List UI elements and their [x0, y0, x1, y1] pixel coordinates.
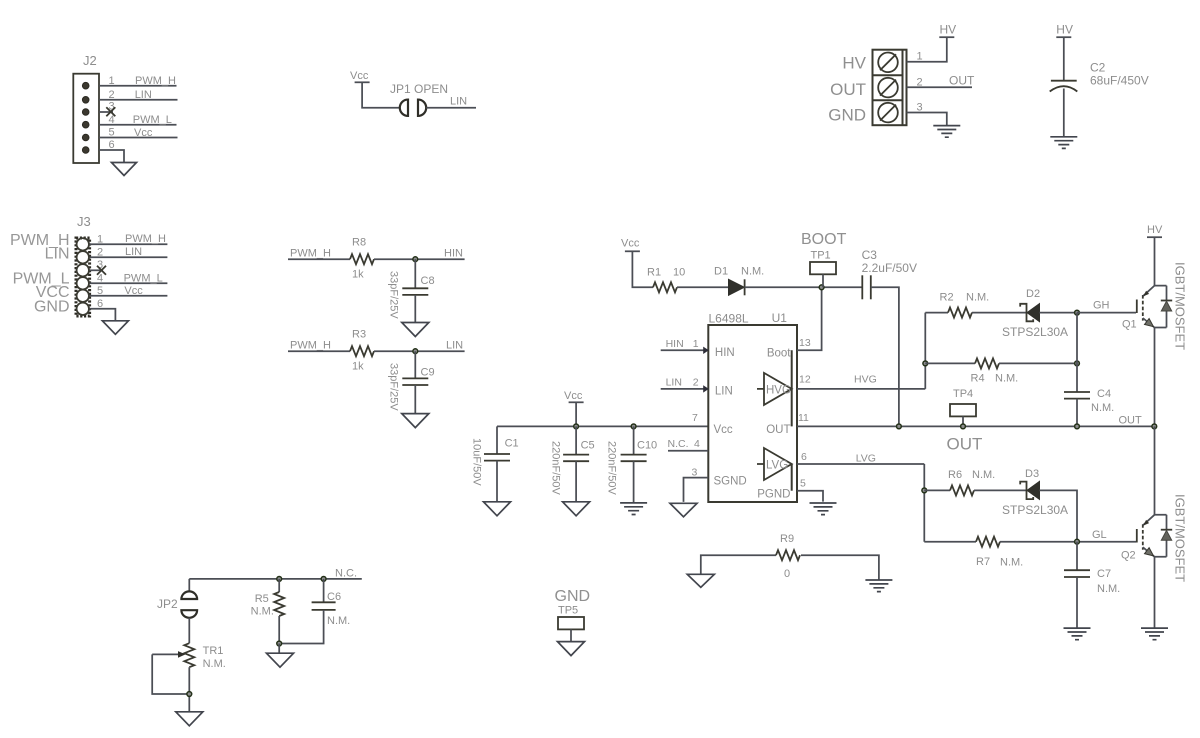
svg-text:JP2: JP2: [157, 597, 178, 611]
svg-text:1: 1: [97, 233, 103, 245]
wire rail to C6: [323, 579, 325, 602]
resistor R5: [274, 592, 284, 616]
capacitor C2 (polarized): [1051, 80, 1077, 82]
wire R4 to GH vertical: [999, 362, 1077, 364]
terminal cell divider 1: [873, 74, 903, 76]
svg-text:1: 1: [109, 75, 115, 87]
J3 pin contact 1: [77, 238, 89, 250]
wire R5 bottom: [278, 616, 280, 644]
pin 1 input arrow: [703, 347, 709, 354]
wire LIN net to pin 2: [661, 388, 709, 390]
junction R5/C6: [277, 641, 282, 646]
svg-text:PWM_H: PWM_H: [125, 233, 166, 245]
jumper JP2 lower half: [181, 610, 197, 618]
svg-text:LIN: LIN: [446, 340, 463, 352]
svg-text:R1: R1: [647, 267, 661, 279]
ground (C8): [402, 323, 429, 337]
wire terminal pin 1 to HV: [907, 37, 947, 62]
wire top rail to N.C.: [189, 578, 361, 580]
svg-text:TP4: TP4: [953, 388, 973, 400]
wire J2 pin 2 LIN: [99, 99, 178, 101]
U1 LVG driver triangle: [757, 448, 792, 480]
junction boot node: [819, 285, 824, 290]
diode D1: [729, 279, 745, 295]
test point TP5: [558, 617, 584, 629]
test point TP5 GND: [555, 588, 591, 656]
svg-text:6: 6: [109, 139, 115, 151]
J3 pin contact 4: [77, 277, 89, 289]
svg-text:LIN: LIN: [125, 246, 142, 258]
Q2 channel bar (dashed): [1142, 524, 1144, 550]
wire GH to Q1 gate: [1077, 312, 1136, 314]
ground (SGND): [670, 503, 697, 517]
svg-text:3: 3: [692, 467, 698, 479]
jumper JP1 circuit: [350, 70, 476, 116]
wire R8 to HIN: [374, 258, 465, 260]
wire rail to JP2: [188, 579, 190, 592]
resistor R7: [976, 537, 1000, 547]
svg-text:Q1: Q1: [1122, 319, 1137, 331]
wire GL node to C7: [1076, 542, 1078, 571]
svg-text:R5: R5: [255, 593, 269, 605]
svg-text:C4: C4: [1097, 388, 1111, 400]
earth ground (R9 right): [865, 580, 892, 592]
svg-text:N.M.: N.M.: [1000, 557, 1023, 569]
svg-text:6: 6: [801, 451, 807, 463]
wire TP1 to boot node: [822, 274, 824, 287]
wire node to ground: [278, 644, 280, 654]
svg-text:LIN: LIN: [715, 386, 733, 398]
junction Q1 emitter / OUT: [1152, 424, 1157, 429]
wire C8 to ground: [414, 295, 416, 323]
svg-text:GL: GL: [1092, 529, 1107, 541]
svg-text:D1: D1: [714, 266, 728, 278]
wire J2 pin 4 PWM_L: [99, 124, 177, 126]
svg-text:5: 5: [109, 127, 115, 139]
svg-text:Vcc: Vcc: [714, 424, 733, 436]
terminal screw 3: [878, 103, 898, 123]
svg-text:C3: C3: [862, 248, 878, 262]
resistor R8: [350, 254, 374, 264]
J3 pin contact 2: [77, 251, 89, 263]
wire Q2 emitter to ground: [1154, 557, 1156, 628]
svg-text:2: 2: [109, 89, 115, 101]
junction rail / C10: [631, 424, 636, 429]
svg-text:HV: HV: [940, 23, 957, 37]
resistor R6: [950, 485, 974, 495]
svg-text:1k: 1k: [352, 361, 364, 373]
wire node to C8: [414, 259, 416, 288]
svg-text:LVG: LVG: [766, 460, 788, 472]
svg-text:L6498L: L6498L: [709, 312, 749, 326]
svg-text:68uF/450V: 68uF/450V: [1090, 74, 1149, 88]
wire SGND pin 3 to ground: [684, 478, 709, 502]
svg-text:N.M.: N.M.: [251, 606, 274, 618]
svg-text:4: 4: [97, 272, 103, 284]
svg-text:PWM_L: PWM_L: [124, 272, 163, 284]
svg-text:N.M.: N.M.: [741, 266, 764, 278]
Q1 channel bar (dashed): [1142, 295, 1144, 321]
high-side gate network: [923, 288, 1142, 454]
wire JP2 to TR1: [188, 618, 190, 643]
svg-text:PGND: PGND: [757, 489, 790, 501]
wire R4 row: [925, 362, 975, 364]
wire HVG pin 12: [797, 388, 925, 390]
svg-text:HIN: HIN: [444, 248, 463, 260]
Q2 collector leg: [1143, 515, 1167, 526]
ground (TR1): [176, 712, 203, 726]
U1 pin 4 N.C. stub: [668, 450, 708, 452]
svg-text:HVG: HVG: [854, 374, 877, 386]
J2 pin contact 2: [82, 97, 89, 104]
wire Vcc to R1: [632, 251, 653, 287]
svg-text:220nF/50V: 220nF/50V: [606, 441, 618, 495]
wire J2 pin 3 stub: [99, 111, 113, 113]
wire C2 to ground: [1063, 89, 1065, 137]
wire C1 to ground: [496, 461, 498, 502]
svg-text:C5: C5: [581, 440, 595, 452]
R8 / C8 input filter: [288, 237, 465, 337]
svg-text:STPS2L30A: STPS2L30A: [1002, 325, 1068, 339]
bootstrap supply branch: [621, 231, 917, 429]
svg-text:HV: HV: [842, 54, 866, 73]
wire J3 pin 5 Vcc: [90, 295, 168, 297]
svg-text:N.M.: N.M.: [1097, 583, 1120, 595]
wire signal ground to R9: [701, 555, 776, 574]
transistor Q2 IGBT/MOSFET low side: [1121, 426, 1188, 639]
J3 pin contact 3: [77, 264, 89, 276]
junction GL/C7: [1075, 539, 1080, 544]
resistor R4: [975, 358, 999, 368]
ground (TP5): [558, 642, 585, 656]
Q2 body diode branch: [1166, 515, 1168, 557]
ground (C5): [563, 502, 590, 516]
svg-text:TP1: TP1: [811, 250, 831, 262]
connector J2: [73, 53, 177, 176]
wire Boot pin 13 to boot node: [797, 287, 822, 350]
wire J3 pin 6 to ground: [90, 309, 116, 321]
Q2 emitter arrow: [1145, 548, 1154, 556]
svg-text:GND: GND: [828, 106, 866, 125]
svg-text:1: 1: [917, 51, 923, 63]
wire C7 to ground: [1076, 577, 1078, 628]
svg-text:R4: R4: [971, 373, 985, 385]
resistor R9 ground tie: [687, 533, 892, 592]
svg-text:33pF/25V: 33pF/25V: [388, 271, 400, 319]
wire J2 pin 6 to ground: [99, 150, 124, 163]
svg-text:R9: R9: [780, 533, 794, 545]
JP2 / TR1 / R5 / C6 network: [152, 568, 362, 726]
svg-text:J3: J3: [77, 214, 91, 229]
connector J3: [10, 214, 167, 334]
earth ground (Q2 emitter): [1141, 628, 1168, 640]
Q1 body diode branch: [1166, 286, 1168, 328]
svg-text:12: 12: [799, 374, 811, 386]
earth ground (terminal pin 3): [933, 126, 960, 138]
wire OUT to Q2 collector: [1154, 426, 1156, 514]
no-connect X on J3 pin 3: [97, 266, 106, 275]
wire rail to C5: [575, 426, 577, 454]
svg-text:C8: C8: [421, 275, 435, 287]
junction C3/OUT: [897, 424, 902, 429]
J3 pin contact 6: [77, 303, 89, 315]
terminal cell divider 2: [873, 99, 903, 101]
svg-text:2: 2: [693, 377, 699, 389]
svg-text:IGBT/MOSFET: IGBT/MOSFET: [1173, 494, 1188, 582]
wire C4 to OUT: [1076, 399, 1078, 427]
svg-text:LIN: LIN: [450, 96, 467, 108]
Q1 body diode: [1161, 300, 1172, 302]
wire D1 to C3: [745, 286, 862, 288]
TR1 wiper arrow: [152, 653, 178, 655]
terminal screw 2: [878, 78, 898, 98]
U1 body: [708, 325, 797, 502]
svg-text:1: 1: [693, 338, 699, 350]
wire PWM_H to R3: [288, 350, 350, 352]
U1 HVG driver triangle: [757, 373, 792, 405]
wire to R6: [924, 489, 950, 491]
capacitor C4: [1064, 391, 1090, 393]
wire HV to C2: [1063, 37, 1065, 80]
J2 pin contact 6: [82, 147, 89, 154]
wire R1 to D1: [677, 286, 729, 288]
junction rail / C5: [574, 424, 579, 429]
svg-text:J2: J2: [83, 53, 97, 68]
svg-text:C1: C1: [505, 438, 519, 450]
wire OUT pin 11: [797, 425, 1154, 427]
Q2 emitter leg: [1143, 547, 1167, 557]
junction GH/D2: [1075, 310, 1080, 315]
svg-text:5: 5: [97, 285, 103, 297]
J2 pin contact 4: [82, 121, 89, 128]
svg-text:7: 7: [692, 412, 698, 424]
capacitor C10: [621, 454, 647, 456]
junction C6 top: [321, 577, 326, 582]
wire J2 pin 1 PWM_H: [99, 85, 177, 87]
ground (J2 pin 6): [112, 163, 137, 176]
svg-text:HVG: HVG: [766, 385, 791, 397]
svg-text:4: 4: [109, 114, 115, 126]
svg-text:GND: GND: [34, 299, 70, 316]
svg-text:N.M.: N.M.: [1091, 402, 1114, 414]
screw terminal block: [828, 23, 975, 138]
wire J3 pin 1 PWM_H: [90, 243, 168, 245]
wire terminal pin 3 to ground: [907, 113, 947, 126]
wire J3 pin 2 LIN: [90, 256, 168, 258]
J3 body: [76, 238, 90, 316]
capacitor C9: [402, 377, 428, 379]
svg-text:HIN: HIN: [666, 338, 684, 350]
junction TR1 bottom: [187, 692, 192, 697]
wire R3 to LIN: [374, 350, 465, 352]
trimmer TR1 body: [184, 643, 194, 667]
J2 pin contact 5: [82, 134, 89, 141]
Q1 collector leg: [1143, 286, 1167, 297]
junction HIN node: [413, 257, 418, 262]
capacitor C3: [861, 275, 863, 299]
svg-text:Boot: Boot: [767, 348, 791, 360]
jumper JP1 right half: [418, 100, 426, 116]
svg-text:Vcc: Vcc: [621, 238, 640, 250]
svg-text:N.M.: N.M.: [995, 373, 1018, 385]
svg-text:4: 4: [694, 438, 700, 450]
U1 internal rail LVG-PGND: [791, 464, 793, 491]
U1 internal rail Boot-HVG-OUT: [791, 350, 793, 426]
diode D3 STPS2L30A: [1020, 482, 1033, 500]
no-connect X on J2 pin 3: [106, 107, 115, 116]
svg-text:GH: GH: [1093, 300, 1110, 312]
wire HV to Q1 collector: [1154, 237, 1156, 285]
diode D2 STPS2L30A: [1020, 304, 1033, 322]
J2 pin contact 3: [82, 109, 89, 116]
svg-text:R3: R3: [352, 329, 366, 341]
svg-text:PWM_H: PWM_H: [135, 75, 176, 87]
svg-text:N.M.: N.M.: [327, 615, 350, 627]
svg-text:10uF/50V: 10uF/50V: [471, 438, 483, 486]
svg-text:R8: R8: [352, 237, 366, 249]
svg-text:C7: C7: [1097, 568, 1111, 580]
junction R5 top: [277, 577, 282, 582]
svg-text:2.2uF/50V: 2.2uF/50V: [862, 261, 917, 275]
svg-text:PWM_H: PWM_H: [290, 340, 331, 352]
Q2 gate bar: [1136, 529, 1138, 543]
wire TP5 to ground: [570, 629, 572, 641]
wire R6 to D3: [974, 489, 1027, 491]
svg-text:Vcc: Vcc: [124, 285, 143, 297]
svg-text:Vcc: Vcc: [134, 127, 153, 139]
wire rail to R5: [278, 579, 280, 592]
svg-text:TR1: TR1: [203, 645, 224, 657]
svg-text:BOOT: BOOT: [801, 231, 847, 248]
svg-text:R6: R6: [948, 469, 962, 481]
capacitor C8: [402, 287, 428, 289]
wire JP1 to LIN: [426, 107, 476, 109]
wire D3 down to GL row: [1040, 490, 1078, 541]
svg-text:HIN: HIN: [715, 347, 735, 359]
wire R9 to power ground: [801, 555, 879, 580]
pin 2 input arrow: [703, 385, 709, 392]
svg-text:N.C.: N.C.: [335, 568, 357, 580]
transistor Q1 IGBT/MOSFET high side: [1122, 224, 1188, 429]
svg-text:D3: D3: [1025, 468, 1039, 480]
svg-text:OUT: OUT: [1119, 415, 1143, 427]
junction C4/OUT: [1075, 424, 1080, 429]
svg-text:IGBT/MOSFET: IGBT/MOSFET: [1173, 262, 1188, 350]
svg-text:N.M.: N.M.: [966, 292, 989, 304]
wire R7 row: [924, 541, 976, 543]
wire terminal pin 2 OUT: [907, 86, 973, 88]
test point TP4: [950, 404, 976, 416]
svg-text:N.M.: N.M.: [203, 658, 226, 670]
svg-text:1k: 1k: [352, 269, 364, 281]
svg-text:PWM_L: PWM_L: [133, 114, 172, 126]
svg-text:SGND: SGND: [714, 475, 747, 487]
ground (C9): [402, 414, 429, 428]
wire LVG pin 6: [797, 463, 924, 465]
wire J3 pin 3 stub: [90, 269, 103, 271]
terminal body: [873, 50, 907, 126]
resistor R9: [776, 550, 800, 560]
jumper JP1 left half: [400, 100, 408, 116]
wire Vcc rail: [497, 425, 708, 427]
svg-text:OUT: OUT: [830, 80, 866, 99]
Vcc decoupling rail: [471, 390, 709, 516]
wire node to C9: [414, 351, 416, 378]
wire C3 to OUT node: [871, 287, 899, 426]
wire TR1 bottom / wiper tie: [152, 654, 189, 711]
earth ground (PGND): [810, 503, 837, 515]
svg-text:6: 6: [97, 298, 103, 310]
Q1 gate bar: [1136, 300, 1138, 314]
wire rail to C10: [633, 426, 635, 454]
wire R2 to D2: [972, 312, 1027, 314]
svg-text:R2: R2: [940, 292, 954, 304]
junction R4/GH: [1075, 361, 1080, 366]
resistor R1: [653, 282, 677, 292]
wire PWM_H to R8: [288, 258, 350, 260]
capacitor C2 branch: [1050, 23, 1149, 149]
Q2 body diode: [1161, 529, 1172, 531]
wire HVG to R2/R4: [924, 313, 926, 389]
svg-text:JP1 OPEN: JP1 OPEN: [390, 82, 448, 96]
svg-text:C9: C9: [421, 367, 435, 379]
svg-text:STPS2L30A: STPS2L30A: [1002, 503, 1068, 517]
junction LVG/R6: [922, 488, 927, 493]
Q1 emitter arrow: [1145, 319, 1154, 327]
svg-text:N.C.: N.C.: [668, 438, 689, 450]
J2 pin contact 1: [82, 82, 89, 89]
earth ground (C2): [1050, 137, 1077, 149]
wire Vcc symbol to rail: [575, 402, 577, 426]
capacitor C7: [1064, 569, 1090, 571]
svg-text:OUT: OUT: [766, 424, 790, 436]
svg-text:N.M.: N.M.: [972, 469, 995, 481]
wire C9 to ground: [414, 385, 416, 414]
junction TP4/OUT: [961, 424, 966, 429]
junction LIN node: [413, 349, 418, 354]
svg-text:10: 10: [673, 267, 685, 279]
J3 pin contact 5: [77, 290, 89, 302]
svg-text:C2: C2: [1090, 61, 1106, 75]
svg-text:R7: R7: [976, 556, 990, 568]
svg-text:Vcc: Vcc: [350, 70, 369, 82]
svg-text:D2: D2: [1026, 288, 1040, 300]
wire D2 to GH node: [1040, 312, 1078, 314]
svg-text:C6: C6: [327, 591, 341, 603]
svg-text:2: 2: [917, 76, 923, 88]
svg-text:OUT: OUT: [949, 74, 975, 88]
ground (R9 left): [687, 574, 714, 587]
wire Q1 emitter to OUT: [1154, 328, 1156, 427]
wire C10 to ground: [633, 461, 635, 503]
earth ground (C7): [1064, 628, 1091, 640]
svg-text:TP5: TP5: [558, 605, 578, 617]
svg-text:13: 13: [799, 337, 811, 349]
wire TP4 to OUT: [962, 416, 964, 426]
wire C6 bottom to R5 node: [279, 610, 323, 644]
wire J2 pin 5 Vcc: [99, 137, 178, 139]
svg-text:Vcc: Vcc: [564, 390, 583, 402]
svg-text:0: 0: [784, 568, 790, 580]
earth ground (C10): [620, 503, 647, 515]
svg-text:220nF/50V: 220nF/50V: [550, 441, 562, 495]
svg-text:HV: HV: [1056, 23, 1073, 37]
svg-text:11: 11: [798, 412, 809, 424]
low-side gate network: [922, 464, 1136, 640]
test point TP1: [810, 262, 836, 274]
svg-text:GND: GND: [555, 588, 591, 605]
capacitor C1: [484, 453, 510, 455]
